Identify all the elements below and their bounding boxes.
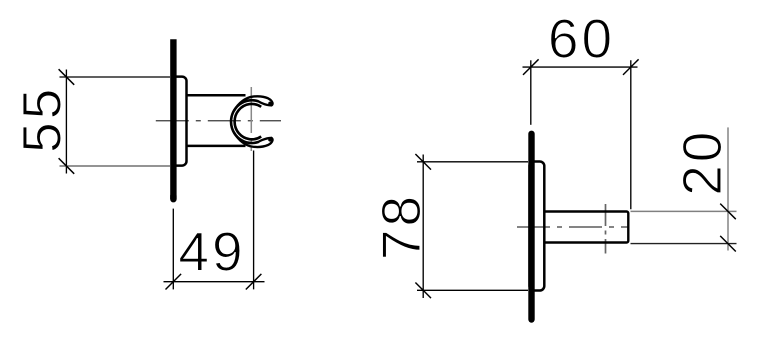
- left view: rosette flange: [172, 77, 187, 166]
- clip top lip tip: [267, 101, 273, 107]
- left view horizontal centerline: [156, 120, 281, 122]
- clip top lip outer: [235, 96, 273, 110]
- left view: holder body bottom line: [188, 145, 246, 148]
- dim 55 extension top: [60, 76, 171, 78]
- dim 60 tick left: [523, 59, 539, 75]
- dim 60 line: [523, 66, 638, 68]
- right view horizontal centerline: [517, 226, 629, 228]
- dim 20 extension top: [631, 210, 737, 212]
- svg-text:78: 78: [370, 193, 432, 260]
- dim 55 tick bottom: [59, 158, 75, 174]
- dim 55 line: [65, 70, 67, 174]
- dim 20 tick top: [720, 204, 736, 220]
- right view: rosette flange: [530, 162, 545, 291]
- clip outer ring arc: [231, 100, 258, 143]
- dim 78 extension top: [417, 161, 528, 163]
- dim 20 extension bottom: [631, 243, 737, 245]
- dim 78 tick bottom: [415, 283, 431, 299]
- dim 60 extension left: [530, 60, 532, 125]
- right view: wall line: [528, 134, 534, 320]
- dim 49 line: [164, 281, 265, 283]
- dim 49 extension left: [172, 209, 174, 290]
- left view: holder body top line: [188, 94, 246, 97]
- dim 49 extension right: [253, 151, 255, 290]
- svg-text:60: 60: [548, 8, 615, 70]
- left view clip vertical centerline: [250, 87, 252, 151]
- dim 60 tick right: [623, 59, 639, 75]
- dim 78 tick top: [415, 154, 431, 170]
- clip top lip underside: [258, 101, 271, 105]
- clip bottom lip outer: [235, 133, 273, 147]
- right view: stem: [544, 212, 628, 243]
- wall line bottom cap: [170, 196, 176, 199]
- dim 49 tick left: [166, 274, 182, 290]
- svg-text:49: 49: [178, 221, 245, 283]
- dim 20 tick bottom: [720, 236, 736, 252]
- dim 49 tick right: [246, 274, 262, 290]
- dim 55 tick top: [59, 69, 75, 85]
- svg-text:20: 20: [671, 129, 733, 196]
- left view: wall line: [170, 39, 176, 199]
- clip bottom lip underside: [258, 138, 271, 142]
- dim 78 line: [422, 155, 424, 299]
- dim 55 extension bottom: [60, 165, 171, 167]
- dim 60 extension right: [630, 60, 632, 209]
- clip inner ring arc: [235, 104, 262, 139]
- clip bottom lip tip: [267, 136, 273, 142]
- svg-text:55: 55: [11, 86, 73, 153]
- dim 20 line: [727, 127, 729, 250]
- dim 78 extension bottom: [417, 289, 528, 291]
- right view stem vertical centerline: [605, 204, 607, 254]
